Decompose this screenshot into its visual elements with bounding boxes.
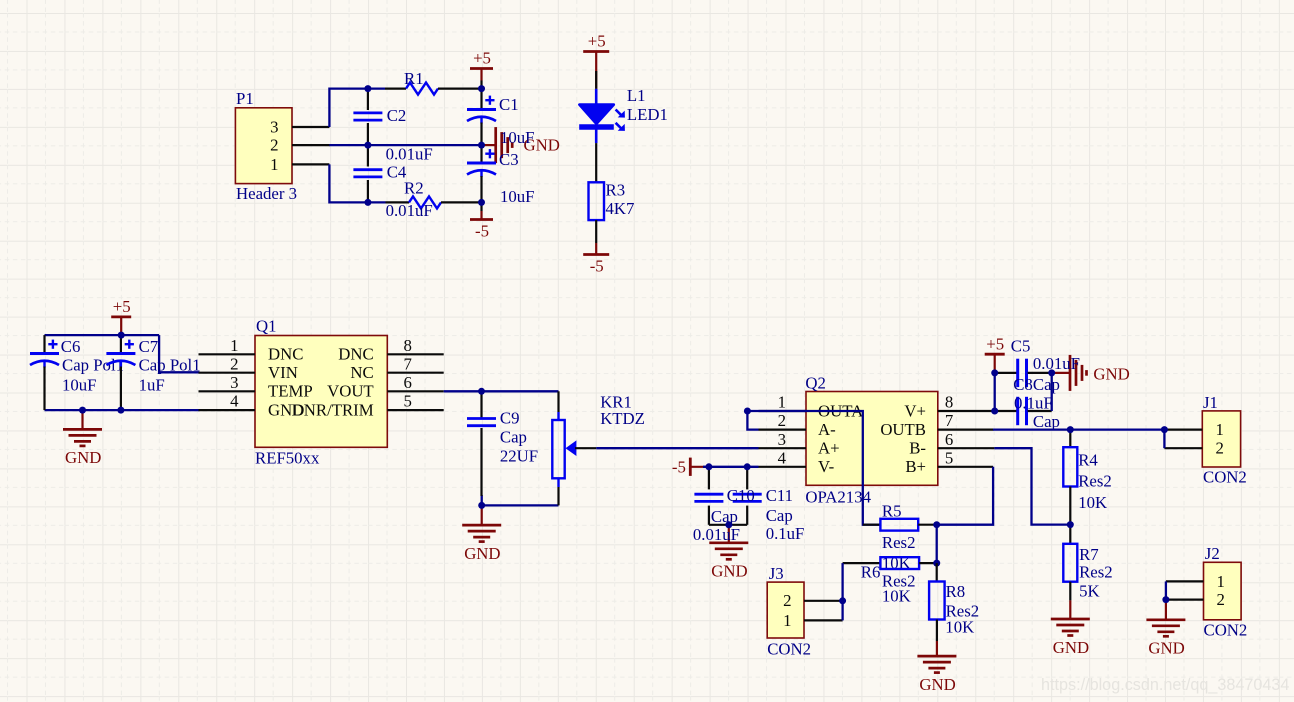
svg-text:5: 5	[945, 448, 953, 467]
wire	[480, 202, 482, 211]
svg-text:8: 8	[404, 336, 412, 355]
svg-text:C5: C5	[1011, 337, 1031, 356]
resistor R7	[1063, 525, 1112, 601]
Q2 pin 2	[759, 429, 807, 431]
svg-text:1: 1	[783, 611, 791, 630]
wire	[444, 390, 559, 392]
svg-text:4: 4	[778, 448, 787, 467]
svg-text:1: 1	[230, 336, 238, 355]
wire	[45, 409, 200, 411]
ground	[1052, 355, 1130, 391]
capacitor C6	[30, 335, 124, 410]
svg-text:10uF: 10uF	[500, 128, 535, 147]
J2 pin 1	[1166, 580, 1204, 582]
svg-text:3: 3	[778, 430, 786, 449]
svg-text:V+: V+	[904, 401, 926, 420]
junction	[991, 369, 998, 376]
junction	[839, 597, 846, 604]
svg-text:C7: C7	[139, 337, 159, 356]
svg-text:5K: 5K	[1079, 582, 1100, 601]
svg-text:GND: GND	[1053, 638, 1089, 657]
Q2 pin 4	[759, 466, 807, 468]
J1 pin 2	[1164, 447, 1202, 449]
svg-text:C10: C10	[727, 486, 755, 505]
Q2 pin 7	[938, 429, 994, 431]
svg-text:0.01uF: 0.01uF	[693, 525, 740, 544]
svg-text:6: 6	[404, 373, 412, 392]
svg-text:+5: +5	[473, 49, 491, 68]
wire	[1163, 430, 1165, 449]
svg-text:A-: A-	[818, 420, 836, 439]
capacitor C5	[995, 359, 1052, 387]
svg-text:https://blog.csdn.net/qq_38470: https://blog.csdn.net/qq_38470434	[1041, 676, 1289, 694]
junction	[1161, 426, 1168, 433]
svg-text:-5: -5	[475, 222, 489, 241]
capacitor C2	[353, 89, 432, 164]
svg-text:REF50xx: REF50xx	[255, 449, 320, 468]
J3 pin 2	[804, 600, 843, 602]
svg-text:3: 3	[270, 117, 278, 136]
junction	[364, 85, 371, 92]
junction	[705, 463, 712, 470]
svg-text:CON2: CON2	[1203, 468, 1247, 487]
junction	[1048, 369, 1055, 376]
svg-text:VIN: VIN	[268, 363, 298, 382]
junction	[744, 408, 751, 415]
Q2 pin 5	[938, 466, 993, 468]
svg-text:GND: GND	[711, 562, 747, 581]
junction	[933, 560, 940, 567]
svg-text:Cap: Cap	[500, 428, 527, 447]
Q1 pin 5	[387, 409, 443, 411]
svg-text:Res2: Res2	[1078, 472, 1112, 491]
svg-text:B+: B+	[905, 457, 926, 476]
svg-text:2: 2	[1216, 439, 1224, 458]
svg-text:+5: +5	[588, 32, 606, 51]
wire	[703, 466, 759, 468]
wire	[841, 563, 843, 620]
svg-text:7: 7	[404, 354, 412, 373]
svg-text:Cap Pol1: Cap Pol1	[139, 356, 201, 375]
svg-text:-5: -5	[672, 458, 686, 477]
ground	[63, 410, 102, 467]
op-amp Q2 OPA2134	[759, 374, 995, 507]
junction	[117, 407, 124, 414]
svg-text:0.01uF: 0.01uF	[386, 144, 433, 163]
wire	[482, 495, 559, 505]
svg-text:4K7: 4K7	[606, 199, 635, 218]
connector J2	[1166, 544, 1247, 640]
svg-text:DNR/TRIM: DNR/TRIM	[292, 401, 374, 420]
svg-text:J3: J3	[769, 564, 784, 583]
wire	[1165, 581, 1167, 599]
connector J1	[1164, 393, 1246, 487]
svg-text:GND: GND	[919, 675, 955, 694]
Q1 pin 3	[199, 390, 256, 392]
svg-text:2: 2	[230, 354, 238, 373]
Q2 pin 6	[938, 447, 995, 449]
svg-text:Q1: Q1	[256, 317, 277, 336]
KR1 wiper arrow	[566, 440, 577, 456]
junction	[933, 521, 940, 528]
junction	[991, 408, 998, 415]
junction	[1162, 596, 1169, 603]
junction	[118, 332, 125, 339]
svg-text:3: 3	[230, 373, 238, 392]
svg-text:C3: C3	[499, 150, 519, 169]
svg-text:22UF: 22UF	[500, 447, 538, 466]
svg-text:Cap: Cap	[1033, 375, 1060, 394]
svg-text:P1: P1	[236, 89, 254, 108]
junction	[725, 521, 732, 528]
svg-text:GND: GND	[464, 544, 500, 563]
svg-text:L1: L1	[627, 86, 646, 105]
svg-text:10K: 10K	[1078, 493, 1107, 512]
svg-text:CON2: CON2	[1204, 621, 1248, 640]
Q1 pin 8	[387, 353, 443, 355]
svg-text:TEMP: TEMP	[268, 382, 313, 401]
svg-text:1: 1	[1216, 420, 1224, 439]
resistor R2	[386, 179, 483, 209]
J2 pin 2	[1166, 598, 1204, 600]
Q1 pin 6	[387, 390, 443, 392]
wire	[937, 467, 993, 525]
wire	[1051, 373, 1053, 411]
capacitor C11	[733, 467, 762, 525]
svg-text:10uF: 10uF	[62, 375, 97, 394]
Q1 pin 2	[199, 372, 256, 374]
svg-text:0.01uF: 0.01uF	[386, 201, 433, 220]
P1 pin 3	[292, 126, 329, 128]
svg-text:R4: R4	[1078, 450, 1098, 469]
svg-text:Res2: Res2	[882, 533, 916, 552]
svg-text:V-: V-	[818, 457, 834, 476]
svg-text:Cap: Cap	[711, 507, 738, 526]
wire	[159, 335, 199, 372]
svg-text:1: 1	[778, 393, 786, 412]
svg-text:+5: +5	[113, 297, 131, 316]
junction	[79, 407, 86, 414]
svg-text:1: 1	[1217, 572, 1225, 591]
svg-text:R2: R2	[404, 179, 424, 198]
svg-text:C6: C6	[61, 337, 81, 356]
svg-text:KTDZ: KTDZ	[600, 409, 645, 428]
junction	[478, 502, 485, 509]
svg-text:GND: GND	[65, 448, 101, 467]
wire	[329, 144, 482, 146]
svg-text:C9: C9	[500, 408, 520, 427]
svg-text:1: 1	[270, 155, 278, 174]
svg-text:0.1uF: 0.1uF	[766, 524, 805, 543]
P1 pin 1	[292, 163, 329, 165]
svg-text:C2: C2	[387, 106, 407, 125]
J3 pin 1	[804, 619, 843, 621]
wire	[480, 81, 482, 89]
junction	[478, 85, 485, 92]
svg-text:10K: 10K	[945, 617, 974, 636]
capacitor C7	[106, 335, 200, 410]
svg-text:Cap: Cap	[766, 506, 793, 525]
svg-text:R6: R6	[861, 563, 881, 582]
svg-text:0.01uF: 0.01uF	[1033, 354, 1080, 373]
svg-text:Cap Pol1: Cap Pol1	[62, 356, 124, 375]
power +5	[985, 334, 1005, 373]
svg-text:8: 8	[945, 393, 953, 412]
svg-text:10K: 10K	[882, 587, 911, 606]
power -5	[583, 243, 609, 276]
svg-text:C1: C1	[499, 95, 519, 114]
Q1 pin 4	[199, 409, 256, 411]
svg-text:2: 2	[778, 411, 786, 430]
svg-text:10uF: 10uF	[500, 187, 535, 206]
ground	[482, 127, 560, 163]
svg-text:C8: C8	[1013, 375, 1033, 394]
svg-text:Header 3: Header 3	[236, 184, 297, 203]
junction	[478, 142, 485, 149]
wire	[709, 524, 747, 526]
junction	[478, 199, 485, 206]
svg-text:Res2: Res2	[1079, 563, 1113, 582]
svg-text:Q2: Q2	[805, 374, 826, 393]
capacitor C8	[995, 397, 1052, 425]
junction	[1067, 426, 1074, 433]
wire	[596, 447, 758, 449]
Q2 pin 3	[759, 447, 807, 449]
capacitor C9	[467, 391, 538, 496]
svg-text:2: 2	[270, 136, 278, 155]
potentiometer KR1	[552, 391, 645, 505]
svg-text:R3: R3	[606, 181, 626, 200]
svg-text:R5: R5	[882, 502, 902, 521]
svg-text:J1: J1	[1203, 393, 1218, 412]
capacitor C10	[694, 467, 723, 525]
svg-text:B-: B-	[909, 439, 926, 458]
power +5	[470, 49, 493, 81]
wire	[329, 89, 385, 127]
svg-text:C4: C4	[387, 163, 407, 182]
Q2 pin 1	[759, 410, 807, 412]
svg-text:GND: GND	[1148, 639, 1184, 658]
svg-text:LED1: LED1	[627, 105, 668, 124]
svg-text:Cap: Cap	[1033, 412, 1060, 431]
svg-text:5: 5	[404, 392, 412, 411]
power -5	[470, 211, 493, 241]
capacitor C4	[353, 145, 432, 220]
P1 pin 2	[292, 144, 330, 146]
resistor R4	[1063, 430, 1111, 525]
svg-text:1uF: 1uF	[139, 375, 165, 394]
resistor R1	[385, 69, 483, 95]
capacitor C1	[467, 89, 535, 147]
svg-text:A+: A+	[818, 439, 840, 458]
svg-text:4: 4	[230, 392, 239, 411]
svg-text:2: 2	[1217, 590, 1225, 609]
svg-text:R8: R8	[946, 582, 966, 601]
power +5	[583, 32, 609, 89]
ground	[1146, 600, 1185, 658]
junction	[744, 463, 751, 470]
connector J3	[767, 564, 842, 659]
wire	[993, 428, 1164, 430]
svg-text:DNC: DNC	[268, 345, 303, 364]
junction	[364, 142, 371, 149]
svg-text:GND: GND	[1093, 364, 1129, 383]
resistor R3	[589, 143, 635, 243]
resistor R5	[863, 502, 937, 573]
svg-text:R1: R1	[404, 69, 424, 88]
LED light arrow 1	[616, 110, 623, 117]
ground	[1051, 600, 1090, 656]
Q2 pin 8	[938, 410, 995, 412]
Q1 pin 1	[199, 353, 256, 355]
ground	[462, 505, 501, 563]
svg-text:R7: R7	[1079, 545, 1099, 564]
junction	[478, 388, 485, 395]
Q1 pin 7	[387, 372, 443, 374]
svg-text:NC: NC	[350, 363, 373, 382]
svg-text:0.1uF: 0.1uF	[1014, 394, 1053, 413]
power -5	[672, 458, 709, 477]
svg-text:CON2: CON2	[767, 640, 811, 659]
svg-text:DNC: DNC	[338, 345, 373, 364]
svg-text:6: 6	[945, 430, 953, 449]
svg-text:J2: J2	[1205, 544, 1220, 563]
J1 pin 1	[1164, 429, 1202, 431]
svg-text:OUTB: OUTB	[880, 420, 926, 439]
connector P1	[235, 89, 330, 203]
IC Q1 REF50xx	[199, 317, 444, 468]
junction	[364, 199, 371, 206]
ground	[709, 525, 748, 581]
ground	[917, 641, 956, 694]
junction	[1067, 521, 1074, 528]
wire	[994, 448, 1070, 524]
LED light arrow 2	[616, 123, 623, 130]
svg-text:C11: C11	[766, 486, 793, 505]
resistor R8	[929, 563, 979, 641]
LED L1	[579, 71, 668, 143]
wire	[994, 373, 996, 411]
svg-text:-5: -5	[590, 257, 604, 276]
svg-text:+5: +5	[986, 334, 1004, 353]
wire	[45, 334, 160, 336]
wire	[747, 411, 880, 525]
wire	[329, 164, 385, 202]
power +5	[111, 297, 131, 335]
svg-text:2: 2	[783, 591, 791, 610]
resistor R6	[843, 557, 937, 606]
wire	[936, 525, 938, 563]
svg-text:VOUT: VOUT	[327, 382, 374, 401]
svg-text:7: 7	[945, 411, 953, 430]
capacitor C3	[467, 145, 535, 206]
